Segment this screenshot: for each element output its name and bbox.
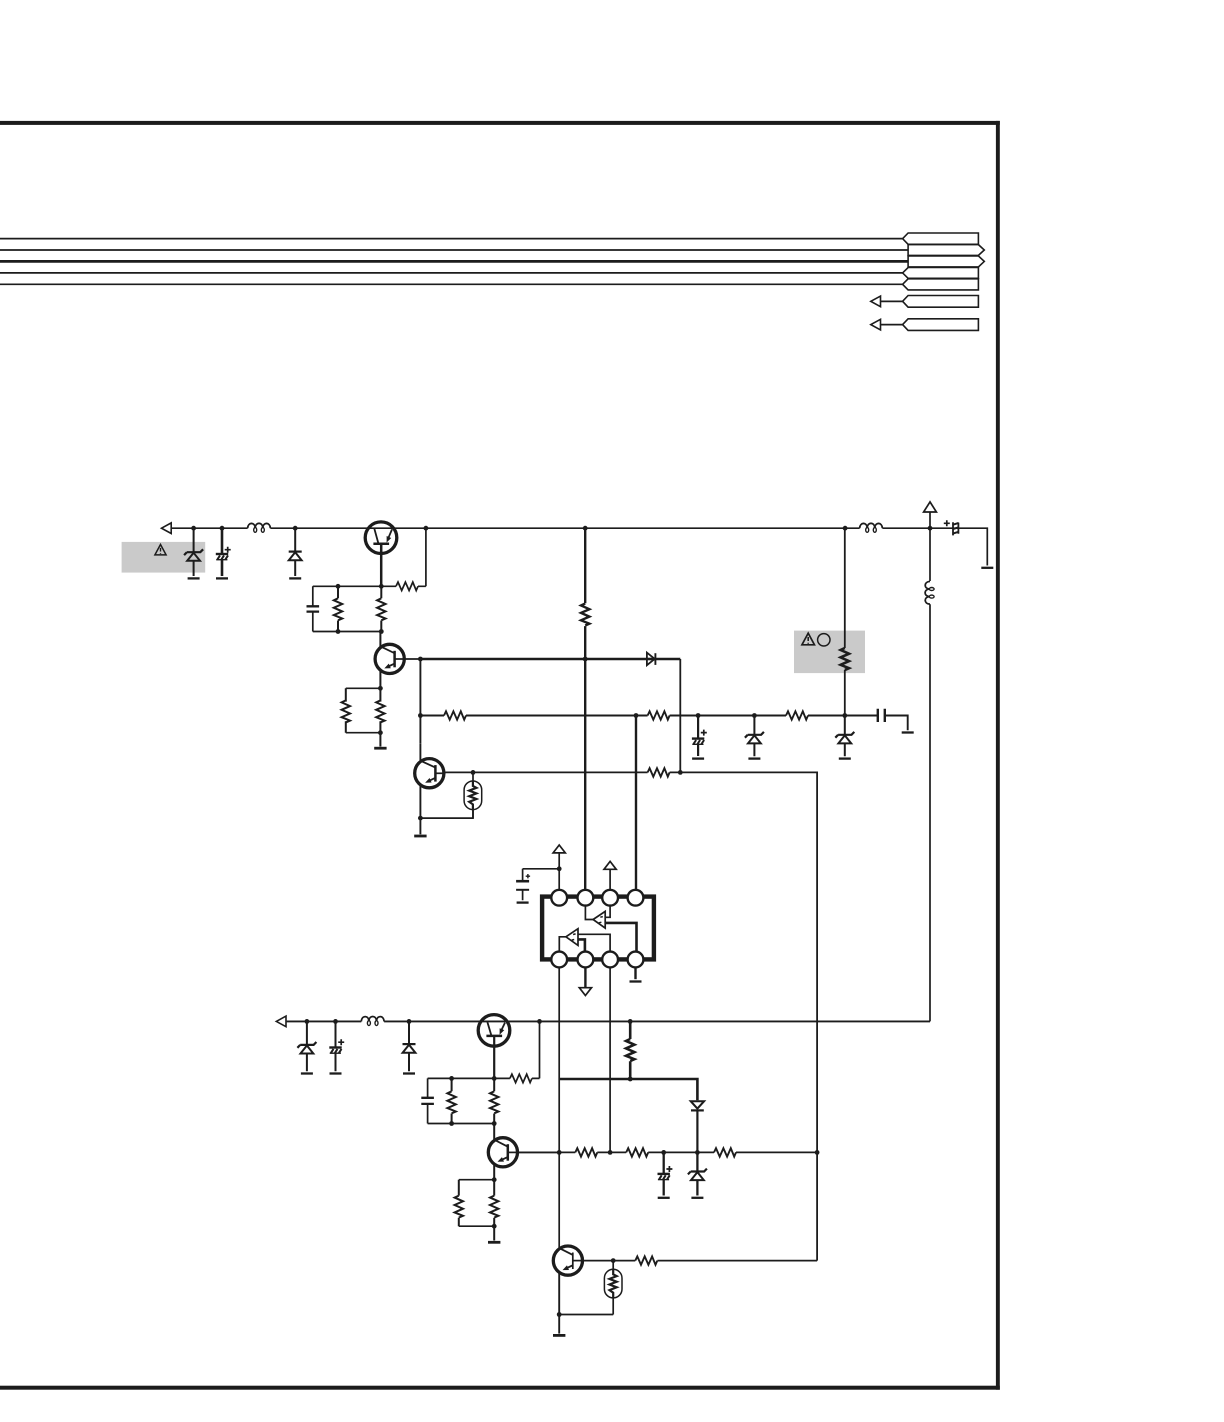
arrow down pin7 [579,988,591,996]
wire thick y1079 [559,1079,697,1100]
wire pair2 bottom [459,1225,494,1227]
capacitor C7 (electrolytic) [335,1021,337,1071]
terminal pin5 [630,981,642,983]
wire Q6 ground [558,1315,560,1334]
resistor R19 (x630 vertical) [629,1021,632,1079]
arrow up pin1 [553,845,565,853]
resistor R4 [345,688,347,732]
wire flag 6 stub [881,300,903,302]
ground Q5 [488,1241,500,1243]
wire bus line 3 (thick) [0,260,908,263]
wire lamp2 bottom [559,1314,613,1316]
wire vertical x585 [584,528,586,890]
wire Q2 emitter pair top [346,687,381,689]
resistor R11 (Q4 feedback) [494,1021,539,1078]
wire pin7 bottom (thick) [584,967,586,987]
node dot C7 [333,1019,338,1024]
zener ZD5 [696,1152,698,1195]
connector flag 1 [903,233,979,244]
wire RC bottom [313,631,382,633]
node dot pin1 [557,866,562,871]
IC pin 2 [578,890,594,906]
node dot Q2 emitter [378,686,383,691]
wire Q3 ground [419,818,421,834]
page frame bottom border [0,1386,1000,1390]
plus C3 [944,520,950,526]
node dot ZD4 [305,1019,310,1024]
resistor R12 [451,1078,453,1123]
node dot x585 y659 [583,657,588,662]
node dot x845 y716 [842,713,847,718]
transistor Q5 [488,1124,517,1180]
arrow flag 6 [871,296,881,307]
node dot Q5 collector top [492,1121,497,1126]
IC pin 7 [578,952,594,968]
arrow lower rail left [276,1016,286,1027]
node dot y1079 [628,1077,633,1082]
node dot C4 [696,713,701,718]
warning symbol box1 [155,545,166,555]
transistor Q3 [415,744,446,818]
highlight box 2 [794,631,865,674]
transistor Q6 [553,1246,582,1315]
connector flag 4 [903,268,979,279]
node dot Q1 base [379,584,384,589]
diode D3 [647,653,656,666]
resistor R3 [337,586,339,631]
capacitor C3 (series electrolytic on rail) [953,522,959,535]
wire pin6 bottom [609,967,611,1152]
node dot pin4 top [634,713,639,718]
wire vertical x845 [844,528,846,715]
wire y716 [420,716,907,731]
zener ZD3 [844,716,846,757]
arrow flag 7 [871,319,881,330]
node dot Q6 emitter [557,1312,562,1317]
capacitor C2 [312,586,314,631]
highlight box 1 [122,542,206,573]
wire Q2 base to node [404,658,420,660]
connector flag 2 [908,245,984,256]
terminal C5 right [902,732,914,734]
node dot ZD5 [695,1150,700,1155]
diode D2 [294,528,296,576]
wire thick y659 [420,658,680,661]
wire lower rail [287,1020,930,1022]
node dot D4 [407,1019,412,1024]
resistor R5 [379,688,381,732]
node dot rail x585 [583,526,588,531]
wire lamp bottom [420,810,473,819]
node dot RC2 bottom [449,1121,454,1126]
node dot RC bottom [336,629,341,634]
node dot Q1 collector rail [424,526,429,531]
resistor R2 (vertical below Q1 base) [380,586,382,631]
connector flag 6 [903,296,979,308]
node dot D2 rail [293,526,298,531]
capacitor C8 [427,1078,429,1123]
node dot Q2 base junction [418,657,423,662]
resistor R14 [458,1180,460,1227]
wire bus line 5 [0,283,903,285]
node dot C9 [661,1150,666,1155]
connector flag 5 [903,279,979,290]
wire flag 7 stub [881,324,903,326]
diode D4 [408,1021,410,1071]
zener ZD4 [306,1021,308,1071]
wire RC top [313,585,382,587]
node dot lamp TH1 top [471,770,476,775]
wire Q6 base [582,1260,613,1262]
terminal ZD1 [188,577,200,579]
wire bus line 2 [0,249,908,251]
node dot lower rail x630 [628,1019,633,1024]
node dot RC2 top [449,1076,454,1081]
node dot x559 y1152 [557,1150,562,1155]
capacitor C6 [522,869,524,901]
ground Q6 [553,1334,565,1336]
wire pin8 bottom [558,967,560,1246]
node dot x817 y1152 [815,1150,820,1155]
resistor R13 [493,1078,495,1123]
plus C1 [225,547,231,553]
wire vertical x930 [929,528,931,1021]
inductor L3 (vertical) [925,581,934,604]
node dot pair2 bottom [492,1224,497,1229]
node dot Q4 base [492,1076,497,1081]
node dot Q4 collector rail [537,1019,542,1024]
IC pin 4 [628,890,644,906]
zener ZD2 [753,716,755,757]
IC pin 3 [602,890,618,906]
arrow top rail left [162,523,172,534]
resistor R10 [648,768,670,776]
capacitor C5 [878,709,885,722]
wire pin3 top [609,869,611,890]
node dot rail L2 [843,526,848,531]
wire bus line 4 [0,272,903,274]
IC pin 8 [551,952,567,968]
wire y1152 [517,1151,817,1153]
terminal C6 [517,902,529,904]
zener ZD1 [193,528,195,576]
node dot Q5 emitter [492,1177,497,1182]
wire top rail [172,528,988,565]
connector flag 7 [903,319,979,331]
connector flag 3 [908,256,984,267]
wire pin4 top (thick) [635,716,637,890]
diode D5 [691,1101,704,1110]
inductor L1 [247,527,271,529]
resistor R21 [786,711,808,719]
resistor R18 [714,1148,736,1156]
opto detector U1a [585,906,636,952]
terminal D2 [289,577,301,579]
inductor L4 [361,1017,384,1026]
thermistor TH2 (lamp) [604,1261,622,1315]
IC U1 body [542,897,654,960]
resistor R1 (Q1 feedback) [381,528,426,586]
resistor R8 [444,711,466,719]
wire bus line 1 [0,238,903,240]
resistor R17 [626,1148,648,1156]
wire to ground Q5 [493,1226,495,1240]
wire pin5 bottom (thick) [634,967,636,979]
node dot D1 rail [191,526,196,531]
node dot C1 rail [220,526,225,531]
resistor R15 [493,1180,495,1227]
node dot Q6 base [611,1258,616,1263]
node dot rail x930 [928,526,933,531]
wire pin1 top [558,853,560,890]
node dot R2 bottom [379,629,384,634]
resistor R16 [575,1148,597,1156]
terminal C1 [216,577,228,579]
capacitor C1 (electrolytic) [221,528,224,554]
node dot x610 y1152 [608,1150,613,1155]
circle symbol box2 [818,634,830,646]
ground Q2 [374,747,386,749]
wire Q5 pair top [459,1179,494,1181]
IC pin 6 [602,952,618,968]
capacitor C4 (electrolytic) [697,716,699,757]
wire cap C6 branch [523,868,560,870]
wire x420 vertical [419,659,421,744]
ground Q3 [414,835,426,837]
node dot ZD2 [752,713,757,718]
node dot x420 y716 [418,713,423,718]
page frame top border [0,121,1000,125]
wire Q5 base to node [517,1151,559,1153]
warning symbol box2 [802,633,815,645]
transistor Q4 [478,1015,510,1079]
IC pin 1 [551,890,567,906]
thermistor TH1 (lamp) [464,772,482,818]
node dot Q3 emitter [418,816,423,821]
terminal T-bar rail right end [981,567,993,569]
wire RC2 bottom [428,1123,495,1125]
resistor R9 [647,711,671,719]
wire RC2 top [428,1077,495,1079]
resistor R7 (gray box) [841,648,849,670]
arrow up pin3 [604,861,616,869]
wire y772 [445,772,817,1152]
page frame right border [996,121,1000,1390]
wire pair bottom [346,732,381,734]
resistor R6 (on x585) [581,604,589,626]
resistor R20 [613,1152,817,1260]
node dot pair bottom [378,730,383,735]
arrow up x930 [924,502,937,512]
opto emitter U1b [559,929,610,952]
inductor L2 [860,523,883,532]
IC pin 5 [628,952,644,968]
transistor Q1 [365,522,397,586]
capacitor C9 (electrolytic) [663,1152,665,1195]
node dot RC top [336,584,341,589]
transistor Q2 [375,632,404,689]
wire to ground [379,733,381,747]
node dot x680 y772 [678,770,683,775]
